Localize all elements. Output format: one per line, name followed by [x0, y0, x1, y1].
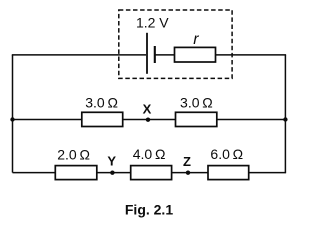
resistor R4 4.0 ohm box: [131, 166, 172, 180]
svg-text:r: r: [193, 31, 199, 48]
wire between 3.0 ohm resistors: [123, 119, 176, 121]
wire 4.0 ohm to 6.0 ohm: [172, 172, 208, 174]
wire left vertical: [12, 55, 14, 173]
node Y dot: [110, 171, 114, 175]
svg-text:4.0 Ω: 4.0 Ω: [133, 146, 166, 162]
resistor R2 3.0 ohm right box: [176, 112, 217, 126]
svg-text:3.0 Ω: 3.0 Ω: [180, 94, 213, 110]
battery cell long plate: [146, 33, 148, 74]
wire bottom left: [13, 172, 56, 174]
wire middle right: [217, 119, 286, 121]
junction dot right: [283, 117, 287, 121]
wire 2.0 ohm to 4.0 ohm: [97, 172, 131, 174]
wire resistor r to top right: [216, 54, 287, 56]
wire right vertical: [284, 55, 286, 173]
battery pack outline: [119, 10, 232, 78]
junction dot left: [10, 117, 14, 121]
svg-text:Fig. 2.1: Fig. 2.1: [125, 202, 173, 218]
svg-text:X: X: [143, 101, 152, 116]
svg-text:1.2 V: 1.2 V: [136, 15, 169, 31]
wire bottom right: [249, 172, 286, 174]
svg-text:3.0 Ω: 3.0 Ω: [85, 94, 118, 110]
svg-text:Y: Y: [107, 154, 116, 169]
node X dot: [146, 118, 150, 122]
wire top left: [12, 54, 146, 56]
node Z dot: [186, 171, 190, 175]
wire battery to resistor r: [155, 54, 175, 56]
svg-text:Z: Z: [183, 154, 191, 169]
resistor r box: [175, 47, 216, 62]
resistor R1 3.0 ohm left box: [82, 112, 123, 126]
resistor R3 2.0 ohm box: [55, 166, 97, 180]
wire middle left: [13, 119, 83, 121]
svg-text:6.0 Ω: 6.0 Ω: [210, 146, 243, 162]
battery cell short plate: [154, 46, 156, 63]
svg-text:2.0 Ω: 2.0 Ω: [57, 146, 90, 162]
resistor R5 6.0 ohm box: [208, 166, 249, 180]
